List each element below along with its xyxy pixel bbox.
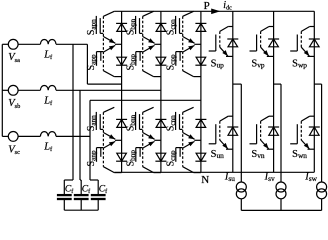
label S_bpp — [125, 54, 137, 71]
transistor body dashed S_vp — [260, 31, 262, 47]
svg-text:Swn: Swn — [292, 149, 307, 160]
transistor body dashed S_vn — [260, 121, 262, 140]
transistor emitter arrow S_wp — [301, 47, 314, 56]
svg-text:Isv: Isv — [264, 172, 275, 184]
transistor body dashed S_cnn/S_cnp — [182, 112, 184, 166]
wire output stub u — [233, 83, 242, 85]
transistor gate S_apn — [96, 16, 103, 34]
svg-text:Svn: Svn — [251, 149, 265, 160]
diode of S_cpn — [195, 23, 206, 31]
transistor gate S_wn — [290, 124, 297, 144]
label S_cnn — [165, 115, 177, 131]
label S_anp — [86, 150, 98, 166]
label Isu — [224, 172, 235, 184]
label Vsb — [8, 98, 20, 110]
diode of S_cpp — [195, 57, 206, 65]
wire phase c riser — [89, 100, 91, 180]
diode of S_ann — [116, 119, 127, 127]
diode of S_vp — [268, 39, 279, 47]
label S_ann — [86, 115, 98, 131]
wire output stub v — [274, 83, 281, 85]
transistor emitter arrow S_un — [220, 140, 233, 149]
wire corner S_bnp — [143, 167, 161, 173]
transistor body dashed S_wn — [300, 121, 302, 140]
wire phase a reroute to column a — [87, 83, 121, 85]
diode of S_wp — [309, 39, 320, 47]
wire collector lead S_wn — [301, 116, 314, 121]
transistor gate S_vp — [250, 35, 257, 52]
wire corner S_cnp — [183, 167, 201, 173]
label Lf phase c — [43, 142, 53, 154]
wire rectifier column c — [200, 11, 202, 172]
transistor emitter arrow S_vn — [261, 140, 274, 149]
wire below source u — [240, 199, 242, 211]
wire cap3 feed — [90, 180, 98, 194]
source Vsa — [2, 39, 18, 49]
wire output bottom bus — [241, 209, 321, 211]
source Vsb — [2, 85, 18, 95]
label S_cpp — [165, 54, 177, 70]
transistor gate S_bpn — [136, 16, 143, 34]
transistor emitter arrow S_ann — [103, 133, 115, 140]
diode of S_anp — [116, 153, 127, 161]
diode of S_bpp — [155, 57, 166, 65]
wire cap2 feed — [80, 90, 81, 194]
label S_wn — [292, 149, 307, 160]
transistor emitter arrow S_up — [220, 47, 233, 56]
diode of S_bnn — [155, 119, 166, 127]
capacitor Cf 3 — [91, 195, 106, 210]
label S_app — [86, 54, 98, 70]
wire N rail — [114, 171, 314, 173]
label S_un — [211, 149, 225, 160]
diode of S_bnp — [155, 153, 166, 161]
wire collector lead S_vn — [261, 116, 274, 121]
transistor body dashed S_up — [219, 31, 221, 47]
transistor gate S_cnn — [176, 112, 183, 130]
transistor emitter arrow S_bnn — [143, 133, 155, 140]
svg-text:Sun: Sun — [211, 149, 225, 160]
transistor gate S_vn — [250, 124, 257, 144]
capacitor Cf 1 — [57, 195, 72, 210]
wire phase a to filter tap — [56, 43, 87, 45]
wire corner S_bpn — [143, 11, 154, 16]
wire node c middle — [194, 43, 201, 45]
transistor gate S_bnp — [136, 148, 143, 162]
wire output riser u — [240, 84, 242, 182]
wire capacitor bottom bus — [64, 209, 98, 211]
svg-text:Isu: Isu — [224, 172, 235, 184]
current source Isv — [276, 182, 286, 199]
transistor gate S_bnn — [136, 112, 143, 130]
wire corner S_bpp — [143, 71, 161, 77]
label Cf 3 — [99, 184, 107, 195]
transistor emitter arrow S_app — [103, 45, 115, 52]
label Cf 2 — [82, 184, 90, 195]
wire collector lead S_wp — [301, 27, 314, 32]
wire below source v — [280, 199, 282, 211]
label S_cpn — [165, 19, 177, 35]
label S_wp — [292, 59, 307, 70]
transistor emitter arrow S_cpp — [183, 45, 195, 52]
transistor body dashed S_cpn/S_cpp — [182, 16, 184, 70]
diode of S_wn — [309, 127, 320, 135]
wire collector lead S_vp — [261, 27, 274, 32]
wire corner S_cpp — [183, 71, 201, 77]
diode of S_up — [227, 39, 238, 47]
transistor gate S_wp — [290, 35, 297, 52]
label Isw — [304, 172, 317, 184]
wire phase a reroute down — [86, 44, 88, 84]
wire corner S_anp — [103, 167, 121, 173]
wire rectifier column b — [160, 11, 162, 172]
wire collector lead S_up — [220, 27, 233, 32]
wire node c middle — [194, 139, 201, 141]
svg-text:Svp: Svp — [251, 59, 265, 70]
wire corner S_apn — [103, 11, 114, 16]
transistor emitter arrow S_vp — [261, 47, 274, 56]
svg-text:Isw: Isw — [304, 172, 317, 184]
wire corner S_ann — [103, 107, 114, 112]
label S_vp — [251, 59, 265, 70]
label Isv — [264, 172, 275, 184]
wire output riser v — [280, 84, 282, 182]
wire inverter leg w — [313, 11, 315, 172]
transistor gate S_up — [209, 35, 216, 52]
wire below source w — [321, 199, 323, 211]
wire phase a source-to-inductor — [18, 43, 40, 45]
label current idc — [223, 0, 232, 11]
diode of S_vn — [268, 127, 279, 135]
wire corner S_bnn — [143, 107, 154, 112]
transistor emitter arrow S_anp — [103, 141, 115, 148]
wire output stub w — [314, 83, 321, 85]
wire phase b to column b — [56, 89, 161, 91]
label S_up — [211, 59, 225, 70]
label S_apn — [86, 19, 98, 35]
transistor body dashed S_bnn/S_bnp — [142, 112, 144, 166]
current source Isw — [317, 182, 327, 199]
svg-text:P: P — [204, 0, 210, 12]
transistor gate S_bpp — [136, 52, 143, 66]
svg-text:Swp: Swp — [292, 59, 307, 70]
svg-text:Sup: Sup — [211, 59, 225, 70]
transistor emitter arrow S_bpp — [143, 45, 155, 52]
label node P — [204, 0, 210, 12]
transistor body dashed S_ann/S_anp — [102, 112, 104, 166]
arrow idc — [211, 9, 220, 15]
diode of S_cnn — [195, 119, 206, 127]
inductor Lf phase c — [40, 132, 56, 137]
wire node a middle — [115, 43, 122, 45]
label node N — [201, 174, 209, 186]
transistor emitter arrow S_apn — [103, 37, 115, 44]
inductor Lf phase b — [40, 86, 56, 91]
svg-text:N: N — [201, 174, 209, 186]
diode of S_app — [116, 57, 127, 65]
wire phase c to tap — [56, 135, 90, 137]
wire corner S_app — [103, 71, 121, 77]
diode of S_apn — [116, 23, 127, 31]
wire cap1 feed — [64, 44, 73, 194]
wire phase c source-to-inductor — [18, 135, 40, 137]
transistor gate S_app — [97, 52, 104, 66]
capacitor Cf 2 — [74, 195, 89, 210]
wire rectifier column a — [121, 11, 123, 172]
transistor emitter arrow S_cnn — [183, 133, 195, 140]
wire phase c reroute to column c — [90, 99, 201, 101]
label S_bpn — [125, 18, 137, 35]
wire left neutral chain — [1, 44, 3, 136]
transistor gate S_cpp — [176, 52, 183, 66]
label Lf phase a — [43, 49, 53, 61]
transistor gate S_ann — [96, 112, 103, 130]
wire inverter leg u — [232, 11, 234, 172]
diode of S_cnp — [195, 153, 206, 161]
label Lf phase b — [43, 95, 53, 107]
inductor Lf phase a — [40, 40, 56, 45]
transistor gate S_un — [209, 124, 216, 144]
label S_bnn — [125, 114, 137, 131]
wire node b middle — [154, 43, 161, 45]
transistor emitter arrow S_bnp — [143, 141, 155, 148]
wire output riser w — [321, 84, 323, 182]
label S_bnp — [125, 150, 137, 167]
transistor gate S_cpn — [176, 16, 183, 34]
transistor body dashed S_wp — [300, 31, 302, 47]
diode of S_un — [227, 127, 238, 135]
transistor gate S_cnp — [176, 148, 183, 162]
transistor emitter arrow S_wn — [301, 140, 314, 149]
transistor gate S_anp — [97, 148, 104, 162]
label Vsc — [8, 144, 20, 156]
transistor emitter arrow S_cnp — [183, 141, 195, 148]
diode of S_bpn — [155, 23, 166, 31]
wire corner S_cnn — [183, 107, 194, 112]
wire P rail — [114, 10, 314, 12]
wire inverter leg v — [273, 11, 275, 172]
wire phase b source-to-inductor — [18, 89, 40, 91]
transistor emitter arrow S_cpn — [183, 37, 195, 44]
transistor body dashed S_un — [219, 121, 221, 140]
wire node b middle — [154, 139, 161, 141]
wire node a middle — [115, 139, 122, 141]
source Vsc — [2, 132, 18, 142]
transistor emitter arrow S_bpn — [143, 37, 155, 44]
label S_vn — [251, 149, 265, 160]
transistor body dashed S_apn/S_app — [102, 16, 104, 70]
wire corner S_cpn — [183, 11, 194, 16]
label S_cnp — [165, 150, 177, 166]
current source Isu — [236, 182, 246, 199]
wire collector lead S_un — [220, 116, 233, 121]
label Cf 1 — [65, 184, 73, 195]
label Vsa — [8, 52, 20, 64]
transistor body dashed S_bpn/S_bpp — [142, 16, 144, 70]
